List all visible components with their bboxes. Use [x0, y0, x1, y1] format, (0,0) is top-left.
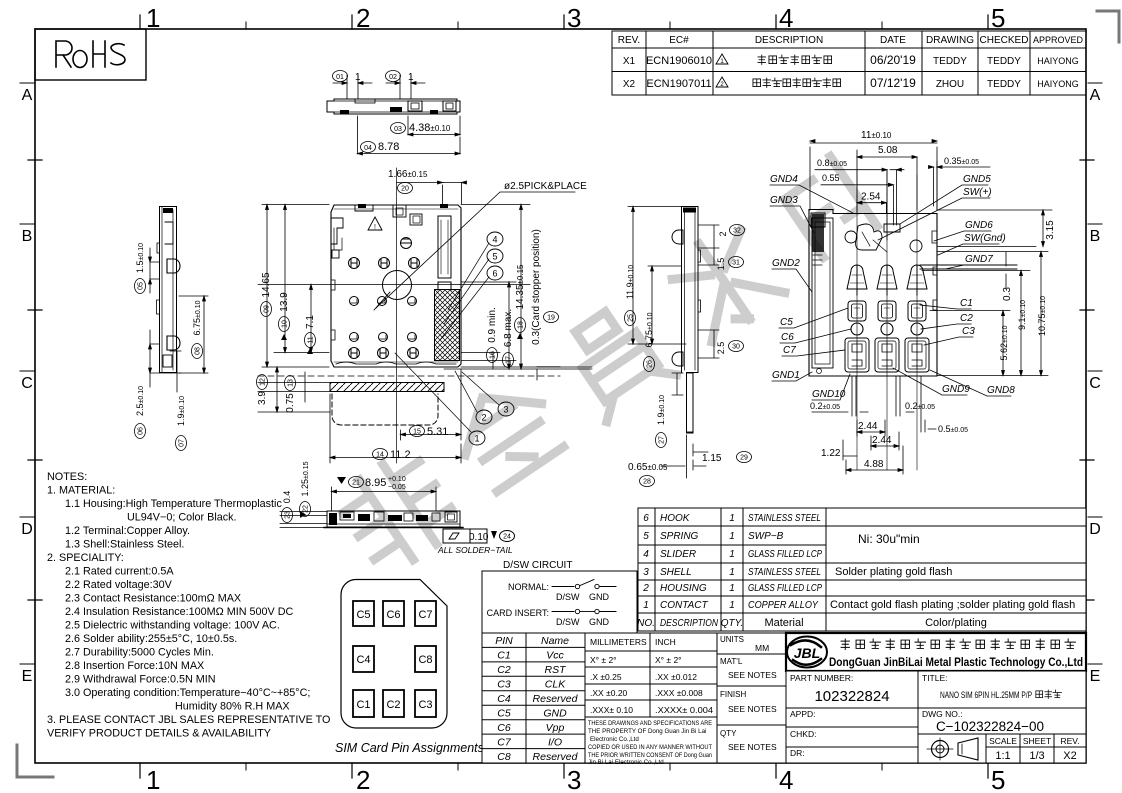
svg-text:PIN: PIN [495, 635, 513, 647]
dim 0.3 [1002, 252, 1013, 301]
svg-text:C7: C7 [497, 737, 512, 749]
watermark 会 [444, 372, 568, 495]
hatched card strip [330, 383, 444, 392]
dim 30 2.5 [698, 330, 744, 358]
pad label GND9 [893, 368, 970, 395]
svg-text:2.5 Dielectric withstanding: 2.5 Dielectric withstanding voltage: 100… [65, 620, 280, 632]
svg-text:THESE DRAWINGS AND SPECIFICATI: THESE DRAWINGS AND SPECIFICATIONS ARE [588, 720, 712, 727]
dim 4.88 [846, 446, 903, 474]
svg-text:1: 1 [643, 600, 649, 611]
svg-text:.X ±0.25: .X ±0.25 [590, 672, 622, 682]
dim 31 1.5 [698, 248, 744, 270]
JBL logo [787, 637, 827, 668]
svg-text:GND: GND [543, 708, 567, 720]
svg-text:NORMAL:: NORMAL: [508, 582, 549, 592]
svg-text:CONTACT: CONTACT [660, 600, 708, 611]
zone numbers top [146, 3, 1005, 33]
svg-text:.XX ±0.012: .XX ±0.012 [655, 672, 697, 682]
svg-text:UL94V−0; Color Black.: UL94V−0; Color Black. [127, 512, 237, 524]
svg-text:1: 1 [146, 765, 160, 793]
svg-text:2.8 Insertion Force:10N MAX: 2.8 Insertion Force:10N MAX [65, 660, 204, 672]
dim 03 4.38 [391, 116, 461, 136]
svg-text:TEDDY: TEDDY [987, 56, 1021, 67]
svg-text:B: B [1090, 228, 1101, 245]
svg-text:25: 25 [628, 314, 635, 322]
zone letters right [1089, 87, 1101, 685]
svg-text:2.7 Durability:5000 Cycles: 2.7 Durability:5000 Cycles Min. [65, 647, 214, 659]
SIM card pin assignment outline [341, 580, 447, 729]
crosshatched slider region [435, 290, 460, 361]
svg-text:1:1: 1:1 [995, 750, 1010, 762]
dim 32 2 [698, 225, 745, 249]
SIM pad C1 [353, 690, 374, 717]
svg-text:29: 29 [740, 455, 748, 462]
svg-text:2.6 Solder ability:255±5°C,: 2.6 Solder ability:255±5°C, 10±0.5s. [65, 633, 237, 645]
dim 9.1 [1017, 271, 1027, 376]
svg-text:11±0.10: 11±0.10 [861, 130, 892, 141]
dim 15 5.31 [401, 369, 462, 440]
dashed card outline [332, 394, 438, 425]
svg-text:SEE NOTES: SEE NOTES [728, 742, 777, 752]
dim 10 13.9 [274, 205, 329, 353]
company CJK name [841, 639, 1075, 650]
svg-text:1.3 Shell:Stainless Steel.: 1.3 Shell:Stainless Steel. [65, 539, 184, 551]
svg-text:C: C [21, 375, 33, 392]
right side extension lines [444, 205, 592, 370]
PIN name table [482, 633, 585, 763]
svg-text:ø2.5PICK&PLACE: ø2.5PICK&PLACE [504, 181, 587, 192]
pad label C6 [780, 329, 851, 343]
svg-text:1: 1 [729, 549, 735, 560]
svg-text:CHKD:: CHKD: [790, 729, 816, 739]
pad label C2 [921, 313, 973, 329]
svg-text:MM: MM [755, 643, 769, 653]
svg-text:15: 15 [413, 429, 421, 436]
frame tick marks bottom [140, 763, 988, 778]
svg-text:Humidity 80% R.H MAX: Humidity 80% R.H MAX [175, 701, 290, 713]
svg-text:1: 1 [355, 72, 361, 83]
dim 11 7.1 [305, 285, 317, 355]
svg-text:C6: C6 [386, 609, 400, 621]
svg-text:0.3: 0.3 [1002, 287, 1013, 301]
svg-text:DATE: DATE [880, 35, 906, 46]
svg-text:Name: Name [541, 635, 569, 647]
svg-text:C2: C2 [497, 664, 511, 676]
svg-text:1: 1 [729, 600, 735, 611]
pad view right edge details [920, 231, 1017, 310]
svg-text:C3: C3 [497, 679, 511, 691]
svg-text:2.2 Rated voltage:30V: 2.2 Rated voltage:30V [65, 579, 173, 591]
svg-text:TEDDY: TEDDY [987, 79, 1021, 90]
svg-text:COPPER ALLOY: COPPER ALLOY [748, 600, 819, 611]
svg-text:2: 2 [642, 583, 649, 594]
svg-text:DESCRIPTION: DESCRIPTION [755, 35, 823, 46]
pad label C5 [779, 308, 848, 328]
dim 0.55 [821, 173, 893, 225]
svg-text:GND6: GND6 [965, 220, 993, 231]
svg-text:5: 5 [643, 531, 649, 542]
svg-text:REV.: REV. [618, 35, 640, 46]
svg-text:ECN1907011: ECN1907011 [646, 78, 711, 90]
svg-text:20: 20 [401, 186, 409, 193]
center lines [258, 168, 530, 463]
svg-text:C5: C5 [356, 609, 370, 621]
svg-text:GND4: GND4 [770, 174, 798, 185]
dim 20 1.66 [388, 169, 467, 204]
svg-text:ECN1906010: ECN1906010 [646, 55, 712, 67]
svg-text:C2: C2 [960, 313, 973, 324]
svg-text:D: D [21, 521, 33, 538]
svg-text:NOTES:: NOTES: [47, 471, 87, 483]
svg-text:SHEET: SHEET [1023, 736, 1051, 746]
svg-text:.XXXX± 0.004: .XXXX± 0.004 [655, 705, 713, 715]
svg-text:Reserved: Reserved [533, 751, 579, 763]
SIM pad C4 [353, 646, 374, 672]
SIM pad C8 [415, 646, 436, 672]
part number block [786, 671, 918, 708]
svg-text:28: 28 [643, 479, 651, 486]
theta contact top [401, 238, 412, 249]
svg-text:5: 5 [492, 252, 497, 262]
svg-text:1.66±0.15: 1.66±0.15 [388, 169, 428, 180]
dim 0.2 right [896, 376, 935, 416]
svg-text:MILLIMETERS: MILLIMETERS [590, 637, 647, 647]
dim 11 +-0.10 top [810, 130, 937, 210]
RoHS logo box [35, 29, 146, 80]
scale sheet rev [986, 734, 1086, 763]
svg-text:COPIED OR USED IN ANY MANNER W: COPIED OR USED IN ANY MANNER WITHOUT [588, 744, 712, 751]
svg-text:14: 14 [376, 452, 384, 459]
svg-text:1: 1 [729, 583, 735, 594]
dim 1.22 [821, 440, 857, 460]
svg-text:TITLE:: TITLE: [922, 673, 948, 683]
title block units column [717, 633, 786, 763]
svg-text:CARD INSERT:: CARD INSERT: [487, 608, 549, 618]
main top view body [331, 205, 461, 367]
svg-text:1: 1 [146, 3, 160, 33]
svg-text:14.65: 14.65 [261, 272, 272, 297]
svg-text:FINISH: FINISH [720, 690, 746, 699]
svg-text:RST: RST [545, 664, 568, 676]
svg-text:4: 4 [779, 765, 793, 793]
svg-text:GLASS FILLED LCP: GLASS FILLED LCP [748, 583, 822, 594]
svg-text:3. PLEASE CONTACT JBL SALE: 3. PLEASE CONTACT JBL SALES REPRESENTATI… [47, 714, 330, 726]
svg-text:2.5: 2.5 [716, 342, 726, 355]
svg-text:C4: C4 [356, 654, 370, 666]
card slot right [438, 216, 451, 290]
flatness control frame 24 [443, 529, 515, 543]
svg-text:C5: C5 [497, 708, 511, 720]
watermark 印 [779, 156, 877, 260]
svg-text:2. SPECIALITY:: 2. SPECIALITY: [47, 552, 124, 564]
svg-text:1.2 Terminal:Copper Alloy.: 1.2 Terminal:Copper Alloy. [65, 525, 190, 537]
pad view bottom contact pads [845, 338, 929, 372]
main view top-left latch detail [331, 218, 343, 340]
svg-text:3.15: 3.15 [1045, 220, 1056, 240]
svg-text:GND: GND [589, 617, 610, 627]
pad view left ground slot [811, 213, 833, 374]
svg-text:STAINLESS STEEL: STAINLESS STEEL [748, 567, 821, 578]
svg-text:C8: C8 [497, 751, 511, 763]
svg-text:6: 6 [492, 269, 497, 279]
svg-text:09: 09 [264, 305, 271, 313]
dim 3.15 [1042, 210, 1057, 247]
revision delta triangle 2 [716, 77, 728, 88]
svg-text:APPROVED: APPROVED [1033, 35, 1084, 45]
svg-text:2: 2 [718, 231, 728, 236]
svg-text:03: 03 [394, 126, 402, 133]
svg-text:2.4 Insulation Resistance:10: 2.4 Insulation Resistance:100MΩ MIN 500V… [65, 606, 294, 618]
zone letters left [21, 87, 33, 685]
legal text [588, 720, 712, 766]
corner registration mark bottom-left [17, 745, 53, 777]
watermark 水 [663, 220, 786, 344]
svg-text:THE PROPERTY OF Dong Guan Jin: THE PROPERTY OF Dong Guan Jin Bi Lai [588, 728, 706, 735]
svg-text:C1: C1 [960, 298, 973, 309]
svg-text:1. MATERIAL:: 1. MATERIAL: [47, 485, 115, 497]
svg-text:VERIFY PRODUCT DETAILS & A: VERIFY PRODUCT DETAILS & AVAILABILITY [47, 728, 271, 740]
svg-text:GND1: GND1 [772, 370, 800, 381]
dim 22 1.25 [280, 461, 327, 527]
svg-text:10: 10 [282, 320, 289, 328]
svg-text:SCALE: SCALE [989, 736, 1017, 746]
svg-text:2: 2 [356, 765, 370, 793]
dim 0.8 [815, 158, 904, 240]
svg-text:C3: C3 [962, 326, 975, 337]
pad label GND1 [772, 370, 812, 381]
svg-text:08: 08 [195, 347, 202, 355]
dim 17 6.8 max [503, 282, 515, 369]
dim 26 6.75 [644, 266, 682, 372]
pad view right extension lines [922, 210, 1052, 376]
svg-text:GND9: GND9 [942, 384, 970, 395]
svg-text:5: 5 [991, 3, 1005, 33]
svg-text:I/O: I/O [548, 737, 562, 749]
svg-text:C7: C7 [783, 345, 796, 356]
svg-text:QTY.: QTY. [721, 618, 743, 629]
dashed card travel line [258, 375, 560, 377]
left side view [157, 207, 181, 373]
notes text block [47, 471, 330, 740]
svg-text:01: 01 [336, 74, 344, 81]
svg-text:05: 05 [138, 282, 145, 290]
svg-text:!: ! [374, 224, 376, 231]
svg-text:C7: C7 [418, 609, 432, 621]
svg-text:UNITS: UNITS [720, 635, 744, 644]
svg-text:1.22: 1.22 [821, 448, 841, 459]
svg-text:Material: Material [764, 617, 803, 629]
bottom profile view (solder side) [324, 511, 463, 528]
svg-text:4.88: 4.88 [864, 459, 884, 470]
pad label SW(+) [878, 187, 992, 240]
svg-text:DR:: DR: [790, 748, 805, 758]
svg-text:1: 1 [408, 72, 414, 83]
contact row 3 [350, 333, 417, 342]
svg-text:C2: C2 [386, 699, 400, 711]
svg-text:NANO SIM 6PIN HL.25MM P/P: NANO SIM 6PIN HL.25MM P/P [940, 690, 1032, 700]
svg-text:C5: C5 [780, 317, 793, 328]
svg-text:2.1 Rated current:0.5A: 2.1 Rated current:0.5A [65, 566, 174, 578]
svg-text:12: 12 [260, 378, 267, 386]
svg-text:C: C [1089, 375, 1101, 392]
dim 2.44 b [871, 432, 899, 450]
svg-text:C8: C8 [418, 654, 432, 666]
svg-text:5: 5 [991, 765, 1005, 793]
svg-text:19: 19 [547, 315, 555, 322]
svg-text:2.44: 2.44 [872, 435, 892, 446]
svg-text:16: 16 [490, 351, 497, 359]
top profile view of connector [327, 99, 460, 114]
svg-text:Color/plating: Color/plating [925, 617, 987, 629]
svg-text:Contact gold flash plating: Contact gold flash plating ;solder plati… [830, 599, 1075, 611]
svg-text:27: 27 [659, 436, 666, 444]
svg-text:0.4: 0.4 [282, 491, 292, 504]
dim 2.44 a [857, 420, 885, 436]
svg-text:SPRING: SPRING [660, 531, 699, 542]
svg-text:HOOK: HOOK [660, 513, 691, 524]
svg-text:QTY: QTY [720, 729, 737, 738]
svg-text:07/12'19: 07/12'19 [870, 76, 916, 90]
balloon 1 [395, 353, 485, 445]
PCB pad layout view body [809, 210, 937, 377]
svg-text:3: 3 [567, 3, 581, 33]
svg-text:C4: C4 [497, 693, 511, 705]
dim 0.35 [929, 156, 991, 210]
svg-text:Ni: 30u"min: Ni: 30u"min [858, 532, 920, 546]
svg-text:CHECKED: CHECKED [980, 35, 1029, 46]
D/SW circuit box [482, 560, 637, 633]
svg-text:1.15: 1.15 [702, 453, 722, 464]
dim 18 14.35 [515, 205, 527, 370]
pad label SW(Gnd) [938, 233, 1006, 255]
frame tick marks left [20, 83, 42, 664]
svg-text:3: 3 [567, 765, 581, 793]
dim 28 0.65 [628, 435, 706, 487]
svg-text:17: 17 [506, 356, 513, 364]
svg-text:GLASS FILLED LCP: GLASS FILLED LCP [748, 549, 822, 560]
svg-text:SHELL: SHELL [660, 567, 692, 578]
svg-text:06: 06 [138, 427, 145, 435]
dim 09 14.65 [261, 205, 330, 368]
SIM pad C6 [383, 601, 404, 626]
svg-text:11.2: 11.2 [390, 449, 411, 461]
svg-text:INCH: INCH [655, 637, 676, 647]
SIM pad C5 [353, 601, 374, 626]
svg-text:2: 2 [356, 3, 370, 33]
pad label GND7 [945, 254, 993, 269]
svg-text:0.10: 0.10 [469, 532, 489, 543]
approval rows [786, 708, 918, 763]
dim 05 1.5 [135, 243, 160, 294]
svg-text:C−102322824−00: C−102322824−00 [936, 719, 1044, 734]
watermark 员 [555, 298, 676, 421]
svg-text:6.8 max.: 6.8 max. [503, 309, 514, 347]
svg-text:02: 02 [389, 74, 397, 81]
dim 5.62 [999, 311, 1009, 376]
svg-text:04: 04 [364, 145, 372, 152]
svg-text:ALL SOLDER−TAIL: ALL SOLDER−TAIL [437, 545, 513, 555]
SIM pad C3 [415, 690, 436, 717]
dim 12 3.9 [257, 367, 331, 412]
dim 02 1 [386, 71, 426, 100]
dim 29 1.15 [693, 444, 752, 464]
svg-text:HOUSING: HOUSING [660, 583, 707, 594]
svg-text:STAINLESS STEEL: STAINLESS STEEL [748, 513, 821, 524]
svg-text:GND7: GND7 [965, 254, 993, 265]
svg-text:Vpp: Vpp [546, 722, 565, 734]
main view bottom edge detail [336, 362, 456, 364]
svg-text:E: E [22, 668, 33, 685]
svg-text:5.31: 5.31 [427, 426, 448, 438]
revision description CJK row1 [758, 55, 832, 65]
main view top edge tabs [355, 204, 448, 225]
svg-text:1: 1 [729, 531, 735, 542]
watermark 非 [333, 446, 463, 577]
pad label GND5 [900, 174, 991, 224]
svg-text:6: 6 [643, 513, 649, 524]
svg-text:C6: C6 [497, 722, 511, 734]
svg-text:B: B [22, 228, 33, 245]
dim 06 2.5 [135, 330, 171, 439]
svg-text:DWG NO.:: DWG NO.: [922, 709, 963, 719]
D/SW normal state switch [508, 580, 616, 603]
svg-text:C1: C1 [497, 650, 510, 662]
svg-text:102322824: 102322824 [814, 688, 889, 705]
title box [918, 671, 1086, 708]
revision table [612, 31, 1086, 95]
svg-text:2.44: 2.44 [858, 421, 878, 432]
svg-text:23: 23 [285, 511, 292, 519]
svg-text:C3: C3 [418, 699, 432, 711]
svg-text:X2: X2 [1063, 750, 1076, 762]
dim 10.75 [1037, 252, 1047, 376]
svg-text:SEE NOTES: SEE NOTES [728, 704, 777, 714]
svg-text:GND10: GND10 [812, 389, 846, 400]
balloon 3 [462, 372, 514, 416]
svg-text:Electronic Co.,Ltd: Electronic Co.,Ltd [590, 736, 639, 743]
corner registration mark top-right [1097, 11, 1119, 42]
pad label GND10 [812, 374, 850, 400]
projection symbol box [918, 734, 986, 763]
svg-text:APPD:: APPD: [790, 709, 816, 719]
balloon 4 [448, 232, 503, 310]
dim 07 1.9 [170, 351, 187, 451]
svg-text:D/SW: D/SW [556, 592, 580, 602]
svg-text:CLK: CLK [545, 679, 566, 691]
frame tick marks right [1080, 83, 1102, 664]
svg-text:2.9 Withdrawal Force:0.5N M: 2.9 Withdrawal Force:0.5N MIN [65, 674, 216, 686]
svg-text:REV.: REV. [1060, 736, 1079, 746]
svg-text:18: 18 [518, 321, 525, 329]
svg-text:14.35±0.15: 14.35±0.15 [515, 264, 526, 310]
svg-text:SEE NOTES: SEE NOTES [728, 670, 777, 680]
svg-text:3.0 Operating condition:Temp: 3.0 Operating condition:Temperature−40°C… [65, 687, 310, 699]
pad label C7 [782, 345, 845, 356]
svg-text:GND2: GND2 [772, 258, 800, 269]
svg-text:SW(+): SW(+) [963, 187, 992, 198]
dim 5.08 [857, 145, 917, 210]
svg-text:3: 3 [643, 567, 649, 578]
svg-text:X° ± 2°: X° ± 2° [655, 655, 682, 665]
dim 21 8.95 [332, 476, 437, 511]
dim 2.54 [857, 192, 886, 214]
svg-text:A: A [1090, 87, 1101, 104]
dim 0.2 left [810, 376, 868, 416]
svg-text:TEDDY: TEDDY [933, 56, 967, 67]
svg-text:8.78: 8.78 [378, 141, 399, 153]
svg-text:0.65±0.05: 0.65±0.05 [628, 462, 668, 473]
dim 0.5 [921, 376, 968, 434]
